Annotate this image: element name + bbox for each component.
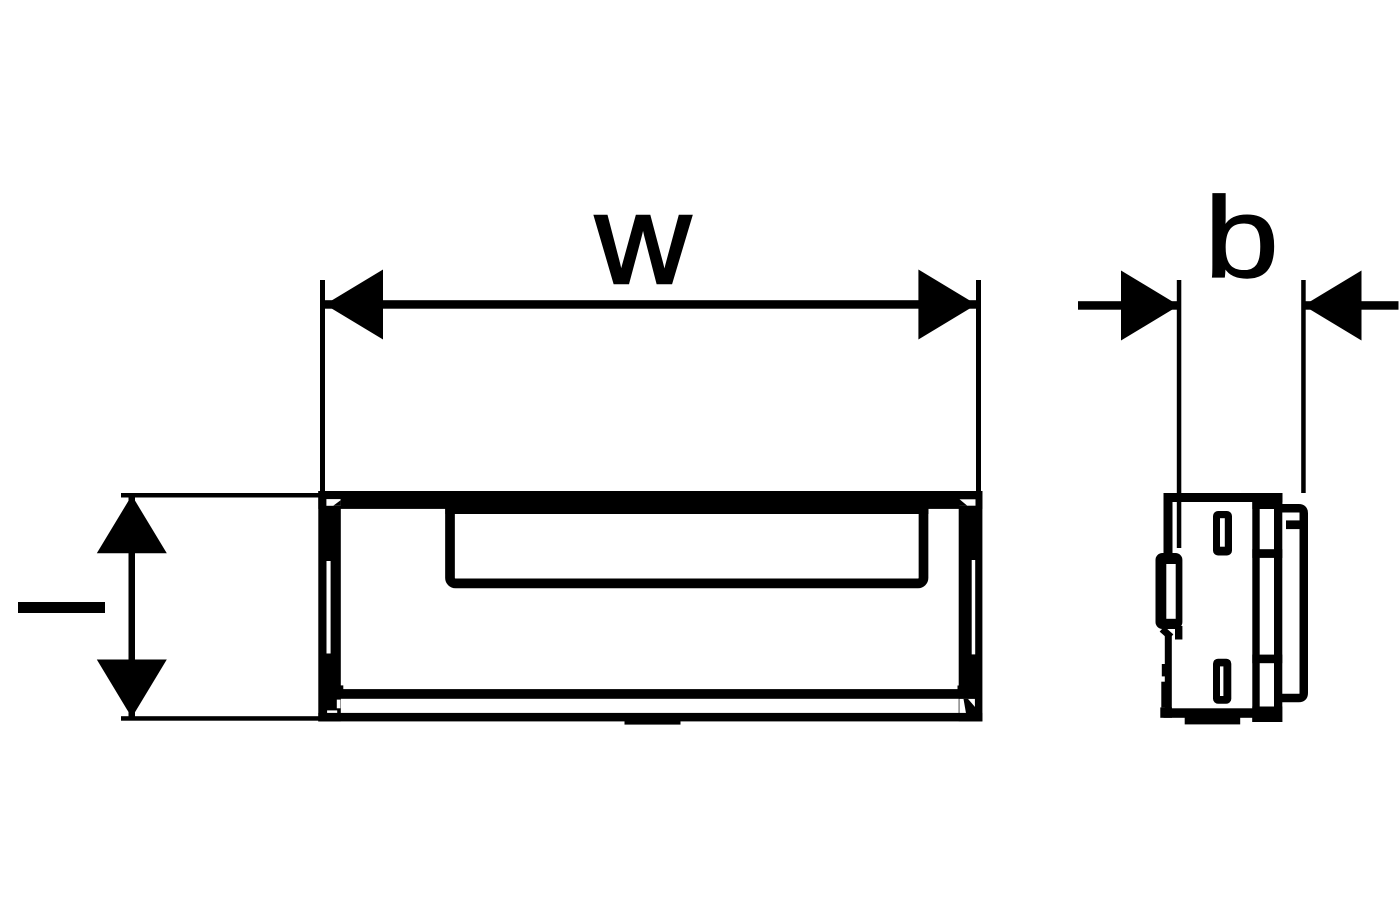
side view left edge bump upper <box>1162 664 1165 676</box>
dimension w extension line right <box>976 280 981 495</box>
side view chamfer below bulge <box>1162 629 1171 637</box>
side view left edge lower <box>1165 634 1172 714</box>
side view top slot <box>1213 511 1232 556</box>
side view cover plate inner top line <box>1286 520 1306 529</box>
front view top-right mitre notch <box>960 499 976 505</box>
side view clip bulge <box>1156 553 1183 629</box>
dimension b line right segment <box>1304 301 1399 310</box>
side view rung top <box>1252 499 1282 509</box>
dimension w arrowhead left <box>325 270 383 340</box>
side view bottom edge <box>1164 708 1254 718</box>
dimension b arrowhead left <box>1121 271 1179 341</box>
dimension w label <box>594 169 692 310</box>
front view left seam slit <box>327 561 331 654</box>
dimension h arrowhead bottom <box>97 660 167 718</box>
front view outer frame right bar <box>959 491 983 721</box>
side view left edge bump lower <box>1161 682 1165 708</box>
side view rung third <box>1252 655 1282 664</box>
side view bottom slot <box>1213 659 1231 704</box>
front view inner frame mitre bump left <box>339 685 343 690</box>
side view cover plate <box>1274 508 1304 698</box>
svg-text:b: b <box>1204 173 1279 302</box>
dimension w arrowhead right <box>918 270 976 340</box>
front view outer frame left bar <box>318 491 341 721</box>
dimension b arrowhead right <box>1304 271 1362 341</box>
dimension b extension line left <box>1177 280 1182 548</box>
dimension b label <box>1204 173 1279 302</box>
dimension h line <box>129 495 136 717</box>
front view outer frame bottom bar <box>318 713 982 722</box>
dimension w extension line left <box>320 280 325 495</box>
side view top edge <box>1164 493 1283 502</box>
side view bottom lip <box>1185 717 1241 724</box>
side view left edge upper <box>1164 493 1173 553</box>
svg-text:w: w <box>594 169 692 310</box>
front view inner frame bottom bar <box>331 689 968 699</box>
side view rail V2 <box>1274 498 1282 722</box>
dimension h arrowhead top <box>97 495 167 553</box>
front view bottom-right mitre notch <box>959 699 975 713</box>
front view inner frame mitre bump right <box>958 686 964 691</box>
side view rung second <box>1252 549 1282 558</box>
side view clip right wall lower end <box>1175 626 1182 640</box>
dimension b line left segment <box>1078 301 1179 310</box>
dimension w line <box>325 300 976 309</box>
dimension b extension line right <box>1301 280 1306 493</box>
front view top-left mitre notch <box>326 499 340 506</box>
front view right seam slit <box>972 560 976 654</box>
side view bottom-left corner flare <box>1160 707 1172 717</box>
front view grate slot <box>450 500 924 583</box>
side view rung bottom block <box>1252 707 1282 723</box>
side view body right edge V1 <box>1252 493 1259 722</box>
dimension h extension line bottom <box>121 716 322 721</box>
dimension h dash label <box>18 602 105 613</box>
front view outer frame top bar <box>318 491 982 509</box>
dimension h extension line top <box>121 493 322 498</box>
front view bottom lip <box>625 721 681 725</box>
front view bottom-left mitre notch <box>327 700 340 713</box>
front view slot top thickening <box>445 508 928 514</box>
